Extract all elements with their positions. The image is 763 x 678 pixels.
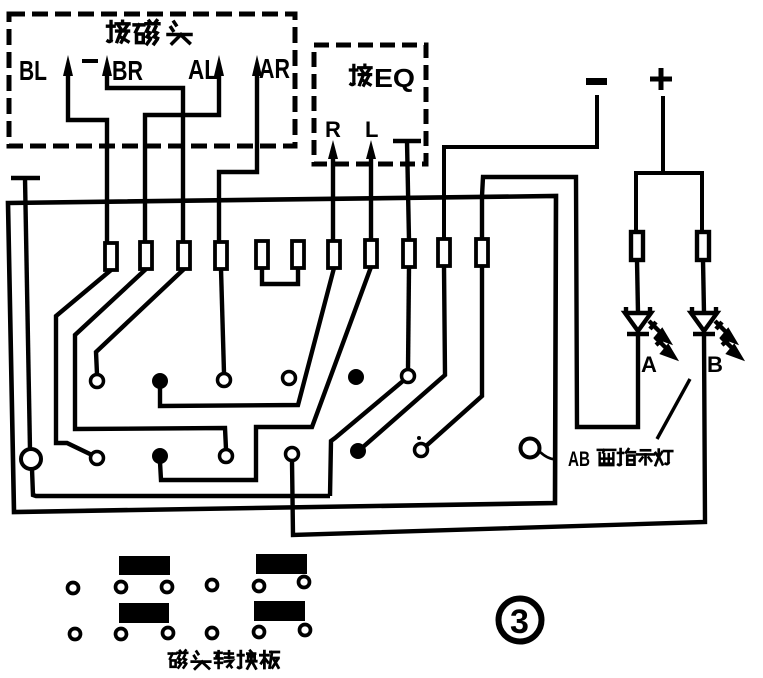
LED B emission arrows — [715, 321, 740, 357]
pad 10 — [438, 239, 450, 266]
svg-text:R: R — [325, 117, 341, 142]
trace pad3 to hole — [96, 269, 184, 374]
plus terminal — [650, 68, 672, 90]
trace pad10 to dot — [363, 266, 445, 447]
PCB board outline — [8, 196, 556, 512]
solder dot (EQ L) — [152, 448, 168, 464]
hole (LED A) — [415, 444, 428, 457]
dashed box: EQ connector 接EQ — [314, 45, 426, 164]
trace pad1 to hole — [56, 270, 111, 455]
dashed box: head connector 接磁头 — [9, 14, 295, 146]
svg-text:AB: AB — [568, 448, 590, 471]
hole row 2 — [70, 625, 311, 640]
ground bus trace — [32, 469, 330, 496]
trace dot to pad7 — [160, 268, 334, 406]
resistor B — [697, 232, 709, 260]
solder dot (unused) — [348, 369, 364, 385]
hole (AR) — [218, 374, 231, 387]
svg-text:AR: AR — [259, 53, 290, 84]
label 接EQ — [350, 65, 371, 85]
hole (EQ ground) — [402, 370, 415, 383]
stray mark — [82, 59, 98, 63]
hole (AL) — [220, 450, 233, 463]
wire L to pad8 — [369, 155, 373, 241]
svg-text:L: L — [365, 117, 378, 142]
wire T to pad9 — [407, 141, 409, 240]
ground T symbol — [11, 176, 40, 181]
pad 2 — [140, 242, 152, 269]
arrow BR — [102, 55, 112, 76]
wire LED B cathode long run — [292, 334, 705, 535]
solder dot (minus) — [350, 443, 366, 459]
wire plus supply split — [661, 96, 665, 173]
pad 11 — [476, 239, 488, 266]
arrow BL — [63, 55, 73, 76]
hole (unused) — [283, 372, 296, 385]
hole (LED B wire) — [286, 448, 299, 461]
block 1 — [119, 556, 170, 575]
wire pad9 to hole — [408, 267, 409, 370]
svg-text:BL: BL — [19, 55, 47, 86]
wire AL to pad2 — [145, 70, 219, 243]
pad 4 — [215, 242, 227, 269]
arrow L — [366, 140, 376, 159]
block 2 — [256, 554, 307, 574]
trace pad11 to hole — [426, 266, 482, 446]
wire R to pad7 — [331, 155, 335, 241]
trace pad2 to hole — [75, 269, 226, 449]
wire T ground into board — [25, 178, 30, 450]
block 4 — [254, 601, 305, 621]
pad 7 — [328, 241, 340, 268]
LED B — [691, 307, 717, 334]
figure number 3 — [499, 599, 542, 642]
wire resistor B to LED B — [703, 260, 704, 313]
LED A — [625, 307, 651, 334]
hole (AB indicator) — [521, 439, 540, 458]
speck — [417, 436, 421, 440]
label 磁头转换板 — [169, 650, 187, 667]
callout tail from hole — [540, 452, 556, 459]
svg-text:3: 3 — [510, 603, 529, 641]
label 接磁头 — [107, 21, 191, 44]
hole row 1 — [68, 577, 310, 594]
callout line — [657, 379, 690, 439]
ground bus circle — [21, 449, 41, 469]
solder dot (EQ R) — [152, 373, 168, 389]
minus terminal — [586, 78, 607, 85]
svg-text:B: B — [707, 352, 723, 377]
svg-text:A: A — [641, 352, 657, 377]
block 3 — [119, 603, 169, 623]
wire minus to pad10 — [444, 95, 597, 240]
arrow AL — [214, 55, 224, 76]
pad 1 — [105, 243, 117, 270]
svg-text:EQ: EQ — [374, 63, 415, 93]
pad 9 — [403, 240, 415, 267]
wire LED A cathode loop to pad11 — [482, 177, 638, 427]
pad 5 — [256, 241, 268, 268]
hole (BL) — [91, 452, 104, 465]
pad 3 — [178, 242, 190, 269]
wire resistor A to LED A — [637, 260, 638, 313]
trace pad4 to hole — [221, 269, 224, 373]
resistor A — [631, 232, 643, 260]
wire AR to pad4 — [219, 70, 257, 242]
pad 6 — [292, 241, 304, 268]
arrow AR — [252, 55, 262, 76]
LED A emission arrows — [0, 0, 674, 457]
T terminal in EQ box — [393, 139, 421, 144]
svg-text:AL: AL — [188, 54, 218, 85]
arrow R — [328, 140, 338, 159]
pad 8 — [365, 240, 377, 267]
trace hole to ground bus — [330, 381, 403, 496]
wire BR to pad3 — [107, 70, 183, 243]
wire BL to pad1 — [68, 70, 107, 244]
trace dot to pad8 — [160, 267, 371, 480]
hole (BR) — [91, 375, 104, 388]
jumper pads5-6 — [262, 268, 298, 284]
